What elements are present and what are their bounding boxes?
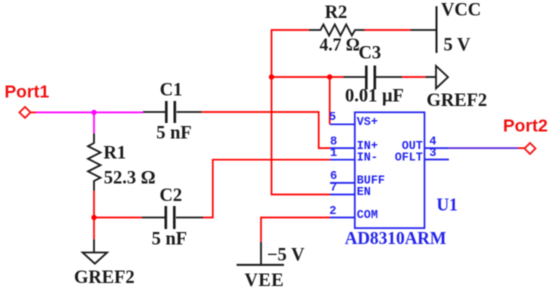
- svg-text:C3: C3: [359, 44, 382, 64]
- svg-text:GREF2: GREF2: [74, 268, 135, 288]
- svg-text:3: 3: [429, 146, 436, 160]
- svg-text:VS+: VS+: [357, 115, 378, 129]
- svg-text:GREF2: GREF2: [427, 91, 488, 111]
- svg-text:C1: C1: [160, 80, 183, 100]
- svg-text:4.7 Ω: 4.7 Ω: [320, 35, 360, 55]
- svg-text:−5 V: −5 V: [267, 246, 305, 266]
- svg-text:OFLT: OFLT: [395, 150, 423, 164]
- svg-text:52.3 Ω: 52.3 Ω: [104, 169, 156, 189]
- svg-text:U1: U1: [437, 195, 458, 215]
- svg-text:IN-: IN-: [357, 150, 378, 164]
- svg-text:VCC: VCC: [441, 1, 481, 21]
- svg-text:2: 2: [329, 204, 336, 218]
- svg-text:R1: R1: [104, 144, 127, 164]
- svg-text:AD8310ARM: AD8310ARM: [345, 228, 446, 248]
- svg-text:1: 1: [330, 146, 337, 160]
- svg-text:5 V: 5 V: [444, 36, 472, 56]
- svg-text:7: 7: [330, 181, 337, 195]
- svg-text:C2: C2: [160, 186, 183, 206]
- svg-text:VEE: VEE: [245, 271, 285, 289]
- svg-text:0.01 μF: 0.01 μF: [345, 87, 404, 107]
- svg-text:COM: COM: [357, 208, 378, 222]
- svg-text:Port2: Port2: [503, 116, 548, 136]
- svg-text:Port1: Port1: [5, 81, 50, 101]
- svg-text:5: 5: [329, 110, 336, 124]
- svg-text:5 nF: 5 nF: [152, 230, 187, 250]
- svg-text:5 nF: 5 nF: [156, 123, 191, 143]
- svg-text:EN: EN: [357, 185, 371, 199]
- svg-text:R2: R2: [325, 3, 348, 23]
